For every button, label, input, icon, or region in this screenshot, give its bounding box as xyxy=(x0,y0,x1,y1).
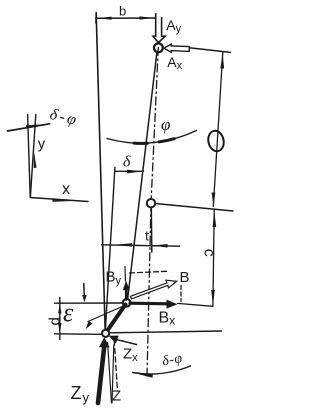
wire joint O2 horizontal reference xyxy=(155,204,233,212)
epsilon down arrowhead xyxy=(82,295,87,302)
force Zy arrow shaft (thick) xyxy=(98,346,104,403)
force Zx arrowhead xyxy=(109,336,119,344)
force By arrow shaft xyxy=(125,290,128,300)
axis y arrowhead xyxy=(34,151,37,169)
dimension b right arrowhead xyxy=(140,16,155,19)
label a (rotated oval) xyxy=(206,129,225,152)
epsilon ray from joint B xyxy=(88,306,125,322)
dimension a top arrowhead xyxy=(220,53,224,68)
wire horizontal right of joint Z xyxy=(110,331,222,333)
line L2 from delta dim to joint Z xyxy=(105,168,115,334)
svg-text:ε: ε xyxy=(63,298,74,327)
dimension delta line xyxy=(115,170,144,172)
member S1 from joint A to joint B xyxy=(128,52,158,301)
arc arrowhead top-left xyxy=(26,124,49,129)
force Bx arrow shaft xyxy=(130,302,168,306)
force By extension line xyxy=(124,267,126,282)
force Bx arrowhead xyxy=(167,300,178,309)
svg-text:Z: Z xyxy=(112,388,121,405)
svg-text:t: t xyxy=(145,228,149,244)
wire dashed vertical from B tip xyxy=(180,286,182,302)
svg-text:y: y xyxy=(38,136,46,153)
force By arrowhead xyxy=(123,281,130,291)
epsilon ray arrowhead xyxy=(86,321,93,329)
dimension c bottom arrowhead xyxy=(211,290,215,306)
axis x line xyxy=(30,198,88,202)
angle phi arc thick segment left xyxy=(134,142,147,145)
wire thin line right of Bx xyxy=(178,303,213,306)
dimension d top arrowhead xyxy=(58,303,61,313)
axis y line xyxy=(28,115,31,197)
dimension b left tick xyxy=(95,13,97,24)
axis y tilted line xyxy=(30,115,35,197)
wire L1 vertical reference from b-dim to joint Z xyxy=(96,14,105,332)
dimension delta arrowhead xyxy=(127,170,143,174)
dimension d bottom reference line xyxy=(55,333,102,336)
center line (dash-dot) joint O2 to foot xyxy=(147,203,151,376)
svg-text:c: c xyxy=(200,249,217,257)
dimension t line xyxy=(102,245,180,246)
angle phi arc thick segment right xyxy=(159,139,174,142)
svg-text:b: b xyxy=(119,4,126,19)
dimension b left arrowhead xyxy=(97,17,112,20)
coordinate axes: arc delta-phi top xyxy=(8,124,50,131)
force B hollow arrow xyxy=(131,280,177,299)
svg-text:δ: δ xyxy=(123,154,131,171)
force Ax hollow arrow xyxy=(164,44,189,52)
dimension b line xyxy=(96,17,155,19)
dimension t left arrowhead xyxy=(113,243,132,246)
wire below joint O2 xyxy=(150,208,153,253)
force Z hollow shaft left line xyxy=(108,343,112,404)
dimension d bottom arrowhead xyxy=(58,323,61,333)
wire top-right reference line xyxy=(189,48,230,53)
dimension c top arrowhead xyxy=(213,211,217,228)
svg-text:B: B xyxy=(180,269,190,286)
joint B circle xyxy=(123,299,131,307)
wire dashed horizontal from By tip xyxy=(130,271,168,273)
force Zx leader line xyxy=(115,339,137,344)
angle delta-phi bottom arc arrowhead xyxy=(133,373,153,378)
dimension t right arrowhead xyxy=(153,244,167,248)
joint A circle xyxy=(154,43,163,52)
dimension a bottom arrowhead xyxy=(212,193,216,207)
link joint B to joint Z (thick) xyxy=(106,305,126,333)
dimension d line xyxy=(59,298,61,340)
angle delta-phi bottom arc xyxy=(133,366,191,374)
dimension a line (right side) xyxy=(213,53,223,207)
wire dashed Z line of action xyxy=(114,340,117,391)
center line (dash-dot) joint A to joint O2 xyxy=(151,48,158,204)
joint Z circle xyxy=(102,330,109,337)
joint O2 circle xyxy=(147,199,155,207)
svg-text:x: x xyxy=(62,181,70,198)
svg-text:d: d xyxy=(46,317,63,325)
force Ay arrow shaft (hollow) xyxy=(153,14,165,43)
axis x arrowhead xyxy=(53,198,73,202)
dimension c line xyxy=(213,210,214,307)
epsilon down arrow shaft xyxy=(83,284,86,297)
force Z hollow shaft right line xyxy=(112,345,114,403)
svg-text:φ: φ xyxy=(161,115,170,134)
dimension d top reference line xyxy=(55,302,124,304)
angle phi arc xyxy=(107,131,197,144)
force Zy arrowhead xyxy=(99,337,110,347)
